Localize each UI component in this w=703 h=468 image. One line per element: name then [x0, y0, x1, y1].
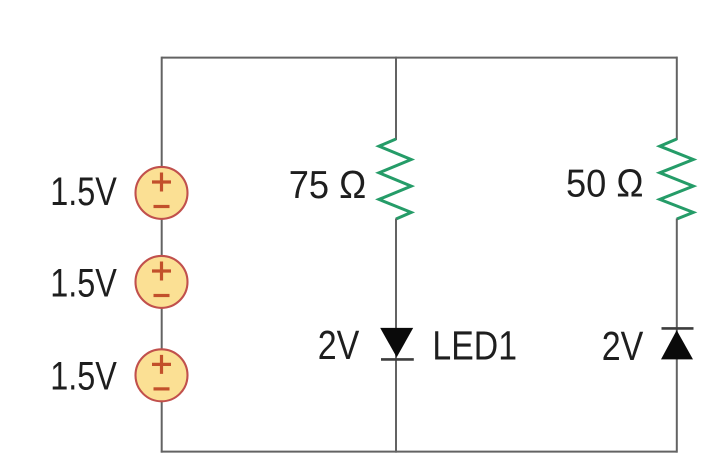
- svg-text:LED1: LED1: [432, 322, 517, 368]
- voltage source V3 plus: [152, 355, 171, 374]
- svg-text:50 Ω: 50 Ω: [566, 161, 644, 204]
- voltage source V3 circle: [136, 349, 188, 401]
- voltage source V2 plus: [152, 262, 171, 281]
- voltage source V2 circle: [136, 256, 188, 308]
- wire: right vertical upper segment: [676, 57, 678, 140]
- svg-text:1.5V: 1.5V: [50, 169, 117, 214]
- voltage source V3 minus: [154, 387, 170, 390]
- svg-text:75 Ω: 75 Ω: [289, 163, 367, 206]
- svg-text:1.5V: 1.5V: [50, 354, 117, 399]
- svg-text:2V: 2V: [318, 322, 360, 367]
- diode D2 triangle (pointing up): [661, 330, 693, 359]
- wire: bottom horizontal: [161, 451, 678, 453]
- svg-text:1.5V: 1.5V: [50, 260, 117, 305]
- resistor R1 75 ohm: [379, 139, 411, 219]
- diode LED1 cathode bar: [381, 358, 414, 361]
- diode D2 cathode bar: [662, 327, 694, 330]
- voltage source V1 circle: [136, 167, 188, 219]
- wire: right vertical lower segment: [676, 219, 678, 453]
- resistor R2 50 ohm: [660, 139, 694, 219]
- wire: top horizontal: [162, 57, 678, 59]
- wire: left vertical (battery branch): [161, 57, 163, 453]
- diode LED1 triangle (pointing down): [380, 328, 413, 357]
- voltage source V2 minus: [154, 294, 170, 297]
- voltage source V1 minus: [154, 205, 170, 208]
- wire: middle vertical lower segment: [395, 219, 397, 453]
- voltage source V1 plus: [152, 173, 171, 192]
- svg-text:2V: 2V: [602, 323, 644, 368]
- wire: middle vertical upper segment: [395, 57, 397, 140]
